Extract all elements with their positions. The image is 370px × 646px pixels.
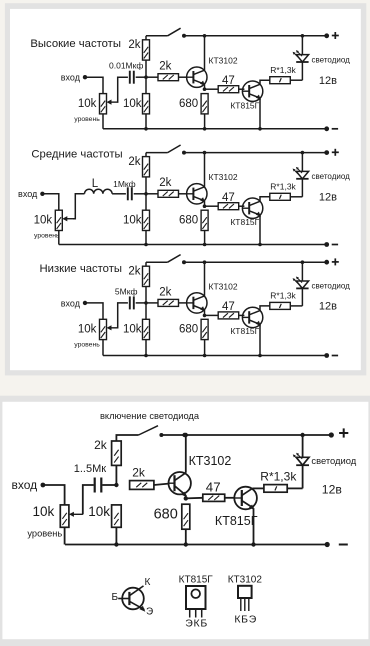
svg-text:2k: 2k: [159, 286, 171, 298]
transistor KT3102 ch3: [187, 293, 207, 313]
svg-text:2k: 2k: [159, 177, 171, 189]
svg-text:10k: 10k: [33, 504, 55, 519]
svg-text:КТ815Г: КТ815Г: [230, 217, 259, 227]
plus rail: [146, 261, 168, 263]
wire Q2 collector to R*: [253, 487, 264, 489]
wire pot bottom to minus rail: [58, 231, 60, 245]
svg-text:5Мкф: 5Мкф: [115, 286, 138, 296]
svg-text:2k: 2k: [94, 438, 108, 452]
minus terminal: [325, 542, 330, 547]
wire 2k to node: [145, 287, 147, 303]
plus terminal: [329, 432, 334, 437]
wire 2k to Q1 base: [179, 302, 187, 304]
resistor 680 ch2: [201, 210, 208, 230]
wire 2k to node: [145, 60, 147, 77]
transistor KT815G ch1: [242, 81, 262, 101]
resistor 10k lower ch2: [143, 210, 150, 230]
wire node to 2k: [146, 302, 158, 304]
wire 680 to minus rail: [204, 340, 206, 356]
svg-text:КТ815Г: КТ815Г: [230, 326, 259, 336]
svg-text:светодиод: светодиод: [312, 282, 351, 291]
potentiometer 10k level ch2: [55, 210, 73, 230]
wire capacitor to node: [134, 193, 146, 195]
resistor 680 (detail): [182, 504, 190, 529]
bias node: [144, 192, 148, 196]
minus rail: [103, 128, 327, 130]
wire R* to LED column: [290, 196, 302, 198]
wire 47 to Q2 base: [225, 497, 235, 499]
wire Q1 emitter to node: [204, 84, 206, 89]
svg-text:12в: 12в: [319, 301, 337, 313]
wire input to pot: [43, 485, 65, 505]
transistor KT815G ch3: [242, 307, 262, 327]
wire Q1 emitter to node: [204, 310, 206, 316]
transistor KT3102 ch2: [187, 184, 207, 204]
wire input to pot: [42, 194, 58, 210]
wire 10k to minus rail: [115, 527, 117, 544]
wire 10k to minus rail: [145, 114, 147, 129]
svg-text:680: 680: [179, 98, 198, 110]
wire R* to LED column: [290, 79, 302, 81]
resistor 10k lower (detail): [112, 505, 122, 527]
resistor 2k upper (detail): [112, 441, 122, 465]
wire 2k to Q1 base: [179, 76, 187, 78]
resistor 2k upper ch3: [143, 266, 150, 286]
resistor 2k upper ch2: [143, 157, 150, 177]
potentiometer 10k level (detail): [60, 505, 83, 527]
wire column top corner: [115, 441, 117, 485]
wire wiper to capacitor: [83, 485, 94, 514]
svg-text:1Мкф: 1Мкф: [113, 179, 136, 189]
wire capacitor to node: [136, 76, 146, 78]
input node: [40, 192, 44, 196]
transistor KT3102 ch1: [187, 67, 207, 87]
svg-text:10k: 10k: [123, 324, 142, 336]
wire Q2 collector to R*: [260, 80, 270, 84]
svg-text:12в: 12в: [319, 192, 337, 204]
wire 2k to Q1 base: [154, 484, 169, 485]
svg-text:680: 680: [154, 507, 178, 523]
minus rail: [103, 355, 327, 357]
svg-text:уровень: уровень: [34, 232, 60, 239]
wire 47 to Q2 base: [239, 88, 245, 90]
coupling capacitor 1Мкф ch2: [128, 187, 132, 200]
wire 680 to minus rail: [204, 114, 206, 129]
transistor symbol legend: [118, 586, 145, 612]
potentiometer 10k level ch3: [100, 319, 118, 339]
svg-text:2k: 2k: [159, 61, 171, 73]
panel 2 frame: [0, 396, 370, 646]
plus terminal label: [332, 258, 339, 265]
plus rail continued: [184, 152, 327, 154]
KT815 package body: [186, 586, 206, 609]
plus terminal: [324, 33, 329, 38]
coupling capacitor 1..5Мк (detail): [95, 478, 102, 493]
svg-text:0.01Мкф: 0.01Мкф: [109, 61, 143, 71]
wire Q2 emitter to minus rail: [253, 508, 255, 544]
svg-text:2k: 2k: [128, 156, 140, 168]
wire rail to LED: [301, 153, 303, 172]
minus terminal: [324, 353, 329, 358]
emitter node: [184, 496, 188, 500]
resistor R*1,3k ch2: [270, 193, 291, 200]
svg-text:включение светодиода: включение светодиода: [100, 411, 200, 421]
wire column top to rail: [145, 36, 147, 40]
svg-text:12в: 12в: [322, 483, 342, 497]
wire column top to rail: [145, 153, 147, 157]
wire rail to LED: [301, 36, 303, 55]
wire wiper to capacitor: [117, 303, 128, 328]
resistor 2k base (detail): [130, 481, 154, 490]
wire input to pot: [85, 303, 103, 319]
svg-text:R*1,3k: R*1,3k: [270, 181, 296, 191]
resistor 10k lower ch3: [143, 319, 150, 339]
wire 2k to node: [145, 177, 147, 194]
panel 1 white: [10, 9, 361, 370]
wire Q1 collector to rail: [204, 153, 206, 187]
LED (detail): [293, 453, 309, 465]
wire pot bottom to minus rail: [64, 527, 66, 544]
svg-text:КТ3102: КТ3102: [189, 454, 232, 468]
minus rail: [65, 544, 327, 546]
svg-text:светодиод: светодиод: [311, 455, 356, 466]
wire 10k to minus rail: [145, 231, 147, 245]
LED ch3: [293, 277, 309, 289]
resistor R*1,3k ch3: [270, 302, 291, 309]
wire node to 2k: [146, 193, 158, 195]
svg-text:Э: Э: [146, 607, 153, 618]
svg-text:вход: вход: [61, 73, 81, 83]
resistor R*1,3k (detail): [264, 485, 287, 493]
svg-text:Средние частоты: Средние частоты: [31, 149, 122, 161]
svg-text:R*1,3k: R*1,3k: [270, 291, 296, 301]
minus terminal label: [332, 128, 338, 130]
svg-text:47: 47: [222, 192, 235, 204]
wire 10k to minus rail: [145, 340, 147, 356]
svg-text:КТ815Г: КТ815Г: [215, 514, 258, 528]
wire wiper to capacitor: [117, 77, 128, 102]
wire node to 47: [186, 497, 203, 500]
resistor 2k upper ch1: [143, 40, 150, 60]
svg-text:2k: 2k: [128, 39, 140, 51]
switch ch3: [168, 255, 186, 265]
svg-text:вход: вход: [61, 298, 81, 308]
svg-text:уровень: уровень: [27, 528, 62, 538]
svg-text:2k: 2k: [128, 266, 140, 278]
svg-text:10k: 10k: [78, 324, 97, 336]
plus terminal label: [332, 32, 339, 39]
wire 680 to minus rail: [185, 529, 187, 544]
svg-text:12в: 12в: [319, 75, 337, 87]
svg-text:КТ3102: КТ3102: [209, 282, 238, 292]
svg-text:10k: 10k: [88, 504, 110, 519]
svg-text:L: L: [92, 178, 99, 190]
emitter node: [203, 314, 207, 318]
svg-text:10k: 10k: [123, 214, 142, 226]
resistor 47 (detail): [203, 494, 225, 501]
svg-text:Б: Б: [111, 592, 118, 603]
input node: [83, 301, 87, 305]
svg-text:КТ3102: КТ3102: [209, 172, 238, 182]
wire Q2 collector to R*: [260, 197, 270, 201]
svg-text:вход: вход: [18, 189, 38, 199]
wire node to 47: [205, 314, 219, 316]
svg-text:10k: 10k: [78, 98, 97, 110]
coupling capacitor 0.01Мкф ch1: [130, 71, 134, 84]
wire capacitor to node: [136, 302, 146, 304]
plus terminal label: [339, 428, 348, 437]
wire 47 to Q2 base: [239, 205, 245, 207]
wire pot bottom to minus rail: [102, 340, 104, 356]
svg-text:Низкие частоты: Низкие частоты: [40, 263, 123, 275]
wire R* to LED column: [287, 487, 302, 489]
svg-text:10k: 10k: [123, 98, 142, 110]
plus rail continued: [184, 261, 327, 263]
wire 680 to minus rail: [204, 231, 206, 245]
resistor 47 ch1: [218, 86, 239, 93]
plus rail continued: [184, 35, 327, 37]
wire node to 47: [205, 88, 219, 90]
wire Q1 collector to rail: [185, 435, 187, 473]
wire input to pot: [85, 77, 103, 93]
resistor 47 ch3: [218, 312, 239, 319]
resistor 2k base ch1: [158, 74, 179, 81]
minus terminal: [324, 126, 329, 131]
wire node to 10k: [145, 303, 147, 319]
wire LED to R* row: [301, 288, 303, 306]
minus terminal label: [339, 544, 348, 546]
wire LED to R* row: [301, 62, 303, 80]
svg-text:вход: вход: [12, 478, 38, 492]
minus rail: [59, 244, 327, 246]
switch (detail): [139, 426, 164, 437]
resistor 47 ch2: [218, 203, 239, 210]
wire capacitor to node: [102, 484, 116, 486]
wire wiper to inductor: [73, 194, 85, 219]
wire Q1 emitter to node: [204, 201, 206, 206]
wire Q2 collector to R*: [260, 306, 270, 311]
transistor KT3102 (detail): [169, 472, 191, 497]
resistor R*1,3k ch1: [270, 77, 291, 84]
svg-text:680: 680: [179, 324, 198, 336]
LED ch1: [293, 50, 309, 62]
wire 2k to Q1 base: [179, 193, 187, 195]
plus terminal: [324, 260, 329, 265]
wire 47 to Q2 base: [239, 314, 245, 316]
wire Q1 emitter to node: [185, 495, 187, 498]
input node: [41, 483, 46, 488]
plus rail: [146, 152, 168, 154]
svg-text:уровень: уровень: [74, 342, 100, 349]
minus terminal: [324, 242, 329, 247]
resistor 2k base ch3: [158, 299, 179, 306]
transistor KT815G ch2: [242, 198, 262, 218]
bias node: [144, 75, 148, 79]
wire node to 10k: [145, 77, 147, 93]
inductor L ch2: [85, 189, 113, 194]
svg-text:47: 47: [222, 301, 235, 313]
wire Q2 emitter to minus rail: [259, 324, 261, 355]
svg-text:уровень: уровень: [74, 116, 100, 123]
emitter node: [203, 87, 207, 91]
svg-text:47: 47: [222, 75, 235, 87]
plus rail: [146, 35, 168, 37]
emitter node: [203, 204, 207, 208]
wire Q1 collector to rail: [204, 262, 206, 296]
svg-text:КТ815Г: КТ815Г: [230, 101, 259, 111]
svg-text:Высокие частоты: Высокие частоты: [30, 38, 121, 50]
svg-text:1..5Мк: 1..5Мк: [74, 463, 107, 475]
svg-text:R*1,3k: R*1,3k: [260, 470, 297, 484]
bias node: [114, 483, 118, 487]
resistor 680 ch1: [201, 94, 208, 114]
wire node to 2k: [146, 76, 158, 78]
svg-text:светодиод: светодиод: [312, 172, 351, 181]
wire R* to LED column: [290, 305, 302, 307]
plus terminal label: [332, 149, 339, 156]
wire Q1 collector to rail: [204, 36, 206, 70]
wire LED to R* row: [302, 465, 304, 488]
minus terminal label: [332, 355, 338, 357]
wire rail to LED: [302, 435, 304, 457]
wire column top to rail: [145, 262, 147, 266]
wire LED to R* row: [301, 179, 303, 197]
svg-text:Э К Б: Э К Б: [185, 618, 207, 630]
switch ch2: [168, 145, 186, 155]
resistor 2k base ch2: [158, 190, 179, 197]
svg-text:КТ815Г: КТ815Г: [179, 574, 214, 585]
bias node: [144, 301, 148, 305]
wire Q2 emitter to minus rail: [259, 215, 261, 244]
svg-text:47: 47: [206, 480, 221, 495]
plus terminal: [324, 150, 329, 155]
svg-text:К Б Э: К Б Э: [234, 613, 256, 625]
switch ch1: [168, 28, 186, 38]
KT3102 package body: [238, 586, 252, 598]
coupling capacitor 5Мкф ch3: [130, 296, 134, 309]
svg-text:КТ3102: КТ3102: [228, 574, 263, 585]
wire node to 47: [205, 205, 219, 207]
transistor KT815G (detail): [234, 487, 257, 510]
KT3102 package legs: [241, 598, 249, 611]
svg-text:R*1,3k: R*1,3k: [270, 65, 296, 75]
minus terminal label: [332, 244, 338, 246]
KT815 package legs: [190, 609, 202, 618]
wire node to 10k: [145, 194, 147, 210]
panel 2 white: [2, 402, 368, 639]
input node: [83, 75, 87, 79]
resistor 10k lower ch1: [143, 94, 150, 114]
svg-text:2k: 2k: [132, 465, 146, 479]
svg-text:10k: 10k: [34, 214, 53, 226]
svg-text:светодиод: светодиод: [312, 55, 351, 64]
svg-text:КТ3102: КТ3102: [209, 55, 238, 65]
wire rail to LED: [301, 262, 303, 281]
panel 1 frame: [5, 3, 366, 375]
wire Q2 emitter to minus rail: [259, 98, 261, 129]
svg-text:К: К: [145, 577, 151, 588]
potentiometer 10k level ch1: [100, 94, 118, 114]
wire inductor to capacitor: [112, 193, 126, 195]
svg-text:680: 680: [179, 214, 198, 226]
wire pot bottom to minus rail: [102, 114, 104, 129]
LED ch2: [293, 167, 309, 179]
resistor 680 ch3: [201, 319, 208, 339]
